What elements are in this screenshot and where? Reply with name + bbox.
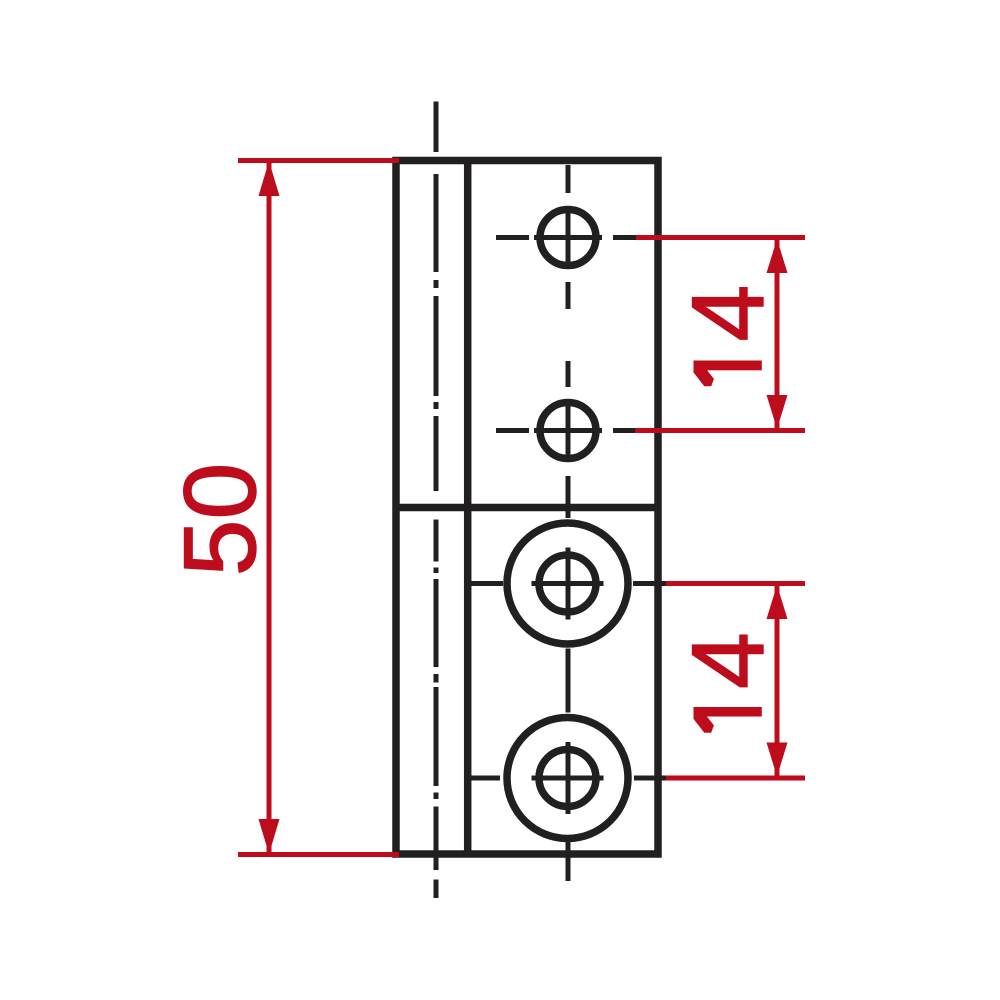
svg-text:4: 4 (671, 285, 785, 342)
svg-text:50: 50 (163, 463, 277, 576)
svg-text:4: 4 (671, 632, 785, 689)
